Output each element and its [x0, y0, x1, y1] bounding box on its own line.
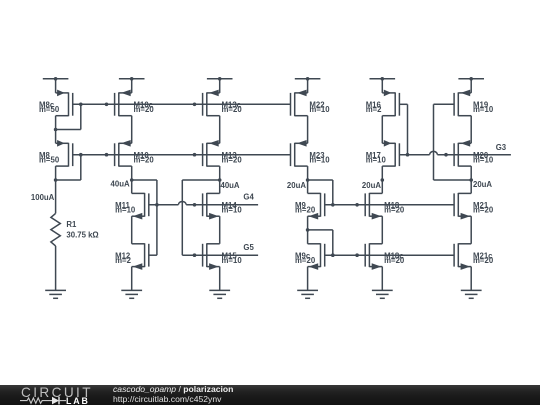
svg-text:m=10: m=10 [366, 156, 387, 165]
wire M8 diode tie [80, 155, 82, 180]
ground below R1 [45, 290, 66, 298]
transistor M11 [115, 193, 149, 220]
transistor M10c [115, 90, 155, 117]
svg-text:m=10: m=10 [473, 156, 494, 165]
transistor M9c [295, 243, 325, 270]
wire gate bus row 1 (M8c-M10c-M13c-M22) [73, 103, 291, 105]
junction M10c gate pin [105, 103, 109, 107]
wire M16 drain to M17 source [381, 116, 383, 144]
transistor M12 [115, 243, 149, 270]
svg-text:m=20: m=20 [384, 206, 405, 215]
wire M22 drain to M23 source [307, 116, 309, 144]
wire M8c drain to M8 source [55, 116, 57, 144]
transistor M20 [454, 140, 494, 167]
wire M10 drain to M11 drain (40uA) [131, 166, 133, 193]
wire 40uA node to G5 (hopped vertical) [182, 179, 219, 181]
power rail VDD rail 3 [207, 77, 233, 93]
wire M12 gate stub [149, 254, 157, 256]
svg-text:m=10: m=10 [222, 206, 243, 215]
transistor M21c [454, 243, 494, 270]
svg-text:m=10: m=10 [115, 206, 136, 215]
junction M18c gate pin [355, 253, 359, 257]
wire M11 source to M12 drain [131, 216, 133, 244]
ground below M18c [372, 290, 393, 298]
wire gate bus row 4 right (M9c-M18c-M21c) [325, 254, 454, 256]
svg-text:m=2: m=2 [366, 105, 382, 114]
transistor M14 [203, 193, 243, 220]
svg-text:G5: G5 [243, 243, 254, 252]
svg-text:m=50: m=50 [39, 156, 60, 165]
CircuitLab logo text LAB [66, 396, 90, 405]
resistor R1 [51, 213, 60, 246]
ground below M21c [461, 290, 482, 298]
svg-text:m=2: m=2 [115, 256, 131, 265]
wire gate bus G4 (M11-M14) with hop [149, 202, 258, 205]
svg-text:m=10: m=10 [309, 105, 330, 114]
wire M9 source to M9c drain [307, 216, 309, 244]
junction M13 gate pin [193, 153, 197, 157]
footer bar [0, 385, 540, 405]
wire M23 drain to M9 drain (20uA) [307, 166, 309, 193]
wire M9 diode tie [308, 179, 333, 181]
wire M19 drain to M20 source [470, 116, 472, 144]
wire M15 source to ground [219, 267, 221, 291]
CircuitLab logo zigzag and diode glyph [19, 395, 75, 405]
junction M15 gate pin [193, 253, 197, 257]
svg-text:m=20: m=20 [384, 256, 405, 265]
wire R1 to ground [55, 246, 57, 291]
wire M12 gate tie to G4 bus [156, 205, 158, 255]
svg-text:20uA: 20uA [362, 181, 381, 190]
CircuitLab logo text CIRCUIT [21, 385, 93, 400]
svg-text:G3: G3 [496, 143, 507, 152]
power rail VDD rail 6 [458, 77, 484, 93]
svg-text:m=20: m=20 [134, 156, 155, 165]
transistor M9 [295, 193, 325, 220]
wire gate bus row 3 right (M9-M18-M21) [325, 204, 454, 206]
footer caption line 1 [113, 384, 233, 394]
wire M17 drain to M18 drain (20uA) [381, 166, 383, 193]
wire M18 source to M18c drain [381, 216, 383, 244]
wire 20uA node to M21 drain [470, 180, 472, 193]
svg-text:G4: G4 [243, 193, 254, 202]
svg-text:m=20: m=20 [473, 256, 494, 265]
power rail VDD rail 4 [295, 77, 321, 93]
transistor M17 [366, 140, 400, 167]
wire gate bus G5 (M15) [182, 254, 258, 256]
transistor M18 [365, 193, 405, 220]
junction M13c gate pin [193, 103, 197, 107]
svg-text:m=20: m=20 [295, 256, 316, 265]
svg-text:m=10: m=10 [309, 156, 330, 165]
transistor M13 [203, 140, 243, 167]
power rail VDD rail 1 [43, 77, 69, 93]
svg-text:m=20: m=20 [222, 156, 243, 165]
wire M13 drain to M14 drain (40uA) [219, 166, 221, 193]
junction M20 gate pin [444, 153, 448, 157]
transistor M8 [39, 140, 73, 167]
svg-text:m=10: m=10 [473, 105, 494, 114]
svg-text:m=20: m=20 [473, 206, 494, 215]
transistor M16 [366, 90, 400, 117]
wire M18c source to ground [381, 267, 383, 291]
wire M14 source to M15 drain [219, 216, 221, 244]
power rail VDD rail 5 [370, 77, 396, 93]
svg-text:m=20: m=20 [134, 105, 155, 114]
wire M8 drain down to R1 [55, 166, 57, 213]
wire M21c source to ground [470, 267, 472, 291]
svg-text:R1: R1 [66, 220, 77, 229]
ground below M15 [209, 290, 230, 298]
wire M20 drain to 20uA node [470, 166, 472, 180]
power rail VDD rail 2 [119, 77, 145, 93]
wire M8c diode tie [80, 104, 82, 129]
wire M19 gate to 20uA node [434, 103, 455, 105]
svg-text:m=20: m=20 [295, 206, 316, 215]
footer caption line 2 [113, 394, 221, 404]
ground below M12 [121, 290, 142, 298]
wire M9c source to ground [307, 267, 309, 291]
wire M13c drain to M13 source [219, 116, 221, 144]
svg-text:20uA: 20uA [473, 180, 492, 189]
wire M10c drain to M10 source [131, 116, 133, 144]
junction M10 gate pin [105, 153, 109, 157]
svg-text:20uA: 20uA [287, 181, 306, 190]
svg-text:100uA: 100uA [31, 193, 55, 202]
wire M21 source to M21c drain [470, 216, 472, 244]
wire gate bus G3 (M17-M20) with hop [399, 151, 511, 154]
wire M12 source to ground [131, 267, 133, 291]
wire gate bus row 2 (M8-M10-M13-M23) [73, 154, 291, 156]
svg-text:m=10: m=10 [222, 256, 243, 265]
transistor M15 [203, 243, 243, 270]
transistor M10 [115, 140, 155, 167]
transistor M23 [291, 140, 331, 167]
transistor M21 [454, 193, 494, 220]
svg-text:m=50: m=50 [39, 105, 60, 114]
svg-text:40uA: 40uA [111, 180, 130, 189]
junction M14 gate pin [193, 203, 197, 207]
svg-text:m=20: m=20 [222, 105, 243, 114]
transistor M18c [365, 243, 405, 270]
wire M16 gate tie to M17 gate [399, 103, 407, 105]
transistor M19 [454, 90, 494, 117]
transistor M13c [203, 90, 243, 117]
wire M11 diode tie [132, 179, 157, 181]
svg-text:30.75 kΩ: 30.75 kΩ [66, 231, 98, 240]
svg-text:40uA: 40uA [221, 181, 240, 190]
transistor M8c [39, 90, 73, 117]
ground below M9c [297, 290, 318, 298]
junction M18 gate pin [355, 203, 359, 207]
transistor M22 [291, 90, 331, 117]
wire M9c diode tie [308, 229, 333, 231]
